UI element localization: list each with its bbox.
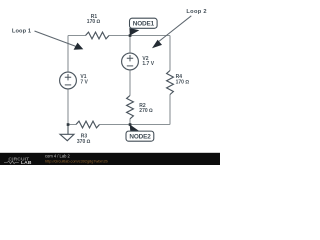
annotation Loop 2 arrowhead bbox=[152, 40, 162, 48]
junction dot NODE2 bbox=[129, 123, 132, 126]
resistor R4 bbox=[167, 71, 174, 95]
footer logo zigzag bbox=[4, 161, 19, 164]
wire top left segment bbox=[68, 35, 86, 37]
resistor R1 bbox=[86, 32, 110, 39]
svg-text:LAB: LAB bbox=[21, 160, 32, 165]
node NODE1 label bbox=[130, 18, 158, 28]
resistor R2 bbox=[127, 96, 134, 119]
wire top right segment bbox=[109, 35, 170, 37]
svg-text:170 Ω: 170 Ω bbox=[176, 80, 190, 86]
wire right branch vertical bbox=[169, 36, 171, 125]
resistor R3 bbox=[76, 121, 100, 128]
node NODE1 flag bbox=[129, 28, 139, 36]
svg-text:170 Ω: 170 Ω bbox=[87, 19, 101, 25]
svg-text:7 V: 7 V bbox=[80, 79, 88, 85]
svg-text:370 Ω: 370 Ω bbox=[77, 139, 91, 145]
voltage source V1 bbox=[60, 72, 77, 89]
wire left branch vertical bbox=[67, 36, 69, 125]
svg-text:NODE1: NODE1 bbox=[133, 21, 155, 28]
svg-text:Loop 2: Loop 2 bbox=[186, 9, 206, 15]
svg-text:270 Ω: 270 Ω bbox=[139, 108, 153, 114]
svg-text:com 4 / Lab 2: com 4 / Lab 2 bbox=[45, 153, 71, 158]
node NODE2 flag bbox=[130, 124, 140, 131]
footer bar bbox=[0, 153, 220, 165]
svg-text:NODE2: NODE2 bbox=[129, 134, 151, 141]
node NODE2 label bbox=[126, 131, 154, 141]
junction dot left (V1/R3/ground) bbox=[67, 123, 70, 126]
svg-text:1.7 V: 1.7 V bbox=[142, 61, 154, 67]
wire bottom segments bbox=[68, 124, 170, 126]
svg-text:Loop 1: Loop 1 bbox=[12, 28, 31, 34]
voltage source V2 bbox=[122, 53, 139, 70]
svg-text:http://circuitlab.com/c392g8g7: http://circuitlab.com/c392g8g7wbm2b bbox=[45, 160, 108, 164]
annotation Loop 1 line bbox=[35, 31, 77, 47]
annotation Loop 1 arrowhead bbox=[74, 43, 84, 50]
wire middle branch vertical bbox=[129, 36, 131, 125]
junction dot NODE1 bbox=[129, 34, 132, 37]
annotation Loop 2 line bbox=[158, 16, 192, 43]
ground bbox=[67, 125, 69, 135]
